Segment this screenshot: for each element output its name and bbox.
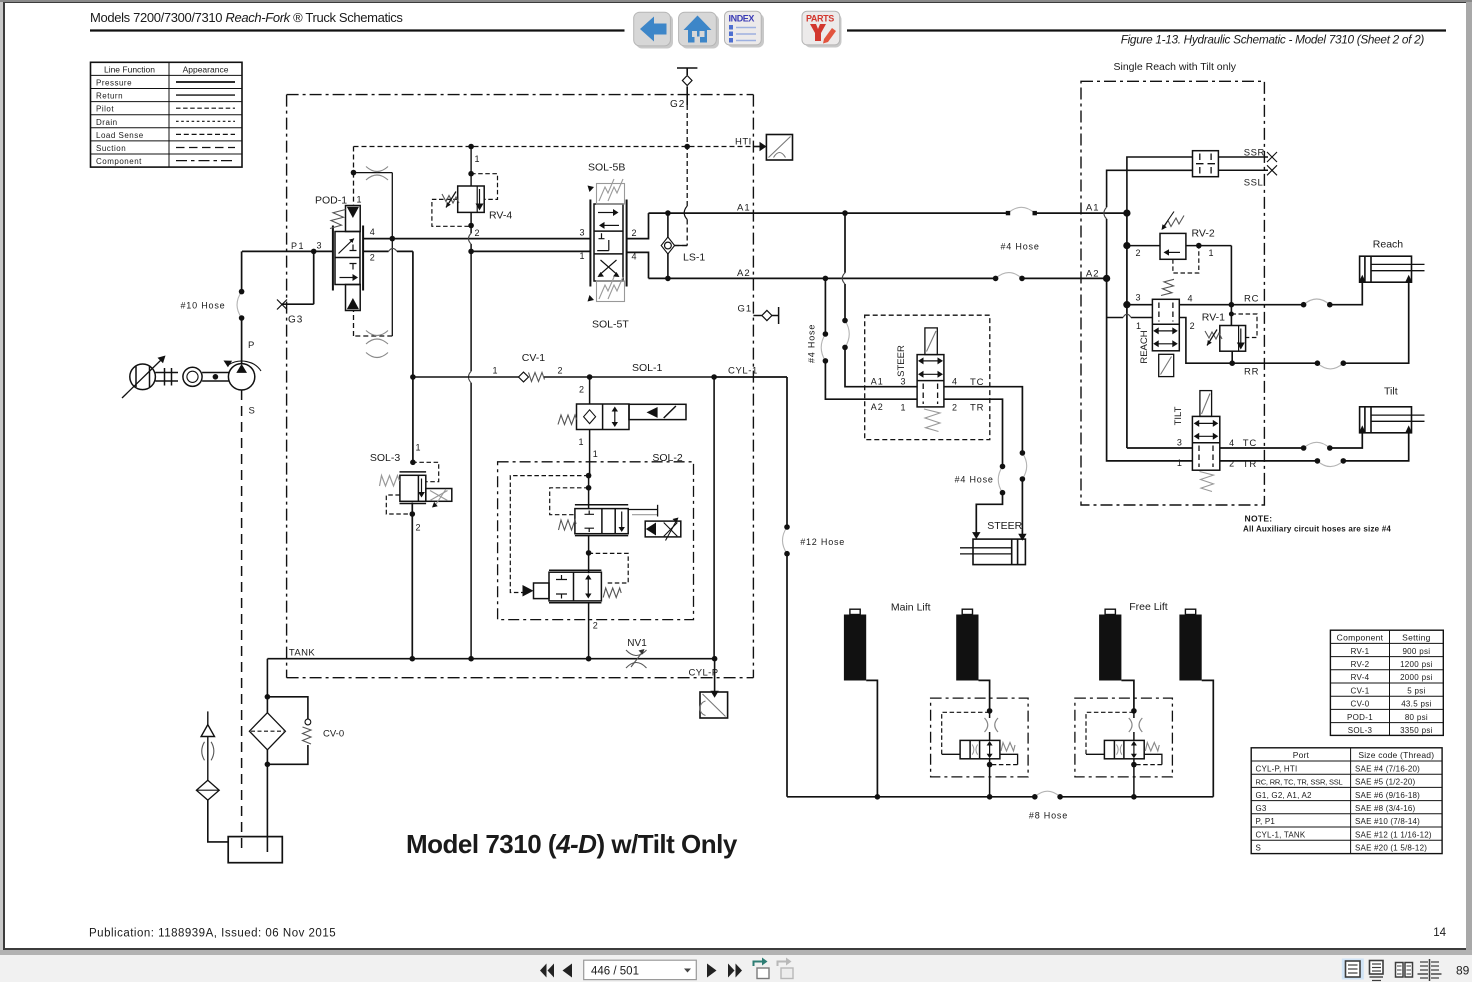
- svg-text:PARTS: PARTS: [806, 14, 834, 24]
- wire POD-1 port4 to SOL-5B port3: [363, 227, 590, 238]
- return filter and CV-0: [249, 659, 344, 837]
- svg-text:RR: RR: [1244, 367, 1259, 378]
- reach port stubs: [1107, 293, 1233, 364]
- svg-text:G3: G3: [288, 315, 303, 326]
- RV-4 relief valve: [432, 147, 512, 239]
- wire SOL-3 feed vertical: [410, 251, 416, 465]
- svg-text:TILT: TILT: [1173, 406, 1184, 425]
- header rule left: [90, 29, 625, 31]
- tilt port stubs: [1107, 278, 1257, 470]
- SOL-2 junction dots: [586, 473, 592, 556]
- svg-text:Component: Component: [96, 157, 142, 166]
- svg-text:2000 psi: 2000 psi: [1400, 673, 1433, 682]
- reach cylinder: [1359, 239, 1425, 283]
- svg-text:1200 psi: 1200 psi: [1400, 660, 1433, 669]
- wire HTI pilot dashed: [354, 146, 754, 148]
- NV1 needle valve: [626, 638, 647, 668]
- svg-text:CV-1: CV-1: [1351, 686, 1370, 695]
- svg-text:2: 2: [416, 523, 421, 533]
- svg-text:SAE #12 (1 1/16-12): SAE #12 (1 1/16-12): [1355, 830, 1432, 839]
- svg-text:Return: Return: [96, 92, 123, 101]
- wire A1 to steer: [842, 213, 917, 387]
- svg-text:TR: TR: [970, 403, 984, 414]
- svg-text:1: 1: [1136, 321, 1141, 331]
- port size table: [1251, 748, 1442, 854]
- svg-text:#10 Hose: #10 Hose: [181, 301, 226, 311]
- svg-text:A2: A2: [871, 402, 884, 412]
- wire P riser with #10 hose: [181, 251, 245, 364]
- svg-text:SAE #10 (7/8-14): SAE #10 (7/8-14): [1355, 817, 1420, 826]
- svg-text:G3: G3: [1256, 804, 1267, 813]
- SOL-2 lower valve: [523, 570, 622, 658]
- svg-text:SOL-5B: SOL-5B: [588, 162, 625, 174]
- figure caption: [1121, 33, 1425, 47]
- port G2: [670, 68, 697, 110]
- svg-text:3: 3: [580, 228, 585, 238]
- svg-text:1: 1: [580, 251, 585, 261]
- view icon single page (active): [1342, 959, 1364, 980]
- nav button parts: [802, 11, 842, 47]
- svg-text:STEER: STEER: [987, 520, 1022, 532]
- svg-text:3350 psi: 3350 psi: [1400, 726, 1433, 735]
- svg-text:SAE #4 (7/16-20): SAE #4 (7/16-20): [1355, 764, 1420, 773]
- svg-text:Figure 1-13. Hydraulic Schema: Figure 1-13. Hydraulic Schematic - Model…: [1121, 33, 1425, 47]
- SOL-1 valve: [558, 362, 686, 476]
- svg-text:RV-1: RV-1: [1351, 647, 1370, 656]
- legend table: [91, 62, 243, 167]
- svg-text:1: 1: [1177, 458, 1182, 468]
- svg-text:1: 1: [475, 154, 480, 164]
- svg-text:Setting: Setting: [1402, 633, 1431, 643]
- svg-text:RV-4: RV-4: [1351, 673, 1370, 682]
- junction dot RV-4 pilot: [468, 144, 474, 150]
- toolbar window icon 2 (disabled): [778, 958, 794, 979]
- wire A2 to steer: [821, 278, 917, 399]
- LS-1 shuttle: [661, 210, 705, 281]
- svg-text:S: S: [1256, 844, 1262, 853]
- wire suction dashed: [241, 390, 243, 849]
- HTI indicator: [735, 135, 793, 161]
- svg-text:1: 1: [357, 195, 362, 205]
- svg-text:CYL-1: CYL-1: [728, 366, 758, 377]
- tilt cylinder: [1359, 386, 1425, 433]
- svg-text:Size code (Thread): Size code (Thread): [1358, 750, 1434, 760]
- svg-text:A1: A1: [1086, 203, 1100, 214]
- svg-text:1: 1: [593, 449, 598, 459]
- svg-text:SOL-1: SOL-1: [632, 362, 663, 374]
- svg-text:Model 7310 (4-D) w/Tilt Only: Model 7310 (4-D) w/Tilt Only: [406, 829, 738, 859]
- svg-text:RC: RC: [1244, 294, 1259, 305]
- steer port labels: [871, 377, 985, 414]
- header title: [90, 10, 403, 25]
- wire TR: [1220, 433, 1409, 467]
- junction dot G2/HTI: [684, 144, 690, 150]
- POD-1 pilot loop: [351, 147, 397, 358]
- svg-text:RV-2: RV-2: [1351, 660, 1370, 669]
- wire A1: [649, 203, 1127, 252]
- port G3: [277, 251, 314, 325]
- pump assembly: [122, 340, 261, 417]
- lift cylinder 4: [1179, 609, 1213, 797]
- wire lift supply #8 hose: [787, 791, 1213, 820]
- svg-text:G2: G2: [670, 99, 685, 110]
- svg-text:G1: G1: [738, 304, 753, 315]
- lift cylinder 1: [844, 609, 880, 799]
- svg-text:Single Reach with Tilt only: Single Reach with Tilt only: [1114, 61, 1237, 73]
- svg-text:RV-2: RV-2: [1192, 228, 1215, 240]
- svg-text:P1: P1: [291, 241, 305, 251]
- wire SOL-5B ports to A1/A2: [627, 213, 649, 278]
- svg-text:1: 1: [416, 443, 421, 453]
- svg-text:#4 Hose: #4 Hose: [955, 475, 994, 485]
- lift cylinder 3: [1099, 609, 1134, 711]
- svg-text:Models 7200/7300/7310 Reach-Fo: Models 7200/7300/7310 Reach-Fork ® Truck…: [90, 10, 403, 25]
- svg-text:4: 4: [1229, 438, 1234, 448]
- svg-text:POD-1: POD-1: [1347, 713, 1373, 722]
- steer valve: [917, 328, 944, 432]
- svg-text:Drain: Drain: [96, 118, 118, 127]
- svg-text:SAE #20 (1 5/8-12): SAE #20 (1 5/8-12): [1355, 844, 1427, 853]
- POD-1 valve: [315, 195, 363, 311]
- svg-text:1: 1: [901, 403, 906, 413]
- wire RR: [1232, 282, 1409, 377]
- toolbar first-page icon: [540, 964, 554, 978]
- wire steer TR: [944, 399, 1005, 539]
- CV-1 check valve: [413, 352, 758, 382]
- svg-text:Free Lift: Free Lift: [1129, 601, 1168, 613]
- svg-text:2: 2: [1229, 459, 1234, 469]
- svg-text:STEER: STEER: [896, 345, 907, 377]
- svg-text:Publication: 1188939A, Issued:: Publication: 1188939A, Issued: 06 Nov 20…: [89, 928, 336, 940]
- svg-text:Main Lift: Main Lift: [891, 602, 931, 614]
- nav button index: [725, 11, 765, 47]
- wire reach feed vertical: [1086, 203, 1130, 449]
- toolbar next icon: [707, 964, 717, 978]
- svg-text:2: 2: [579, 385, 584, 395]
- svg-text:2: 2: [632, 228, 637, 238]
- svg-text:Port: Port: [1293, 750, 1310, 760]
- svg-text:#8 Hose: #8 Hose: [1029, 811, 1068, 821]
- reservoir tank: [228, 837, 282, 863]
- RV-2 relief valve: [1127, 212, 1232, 305]
- port CYL-P: [689, 377, 728, 718]
- velocity fuse 2: [1086, 708, 1162, 799]
- toolbar page textbox: [584, 960, 697, 979]
- view icon continuous: [1370, 961, 1384, 981]
- svg-text:SAE #5 (1/2-20): SAE #5 (1/2-20): [1355, 778, 1415, 787]
- svg-text:#12 Hose: #12 Hose: [800, 537, 845, 547]
- wire G2 pilot dashed vertical: [675, 105, 688, 246]
- svg-text:CYL-1, TANK: CYL-1, TANK: [1256, 830, 1306, 839]
- wire POD-1 port2 to SOL-5B port1: [363, 251, 590, 262]
- svg-text:3: 3: [1177, 438, 1182, 448]
- toolbar last-page icon: [728, 964, 742, 978]
- svg-text:SSL: SSL: [1244, 178, 1263, 189]
- svg-text:CYL-P, HTI: CYL-P, HTI: [1256, 764, 1298, 773]
- view icon two pages: [1396, 963, 1413, 978]
- REACH valve: [1152, 279, 1179, 376]
- svg-text:3: 3: [317, 241, 322, 251]
- svg-text:G1, G2, A1, A2: G1, G2, A1, A2: [1256, 791, 1313, 800]
- SOL-2 upper valve: [559, 476, 681, 574]
- svg-text:900 psi: 900 psi: [1402, 647, 1430, 656]
- velocity fuse 1 box: [931, 698, 1029, 777]
- svg-text:Pilot: Pilot: [96, 105, 114, 114]
- svg-text:RV-4: RV-4: [489, 210, 512, 222]
- breather: [196, 711, 228, 842]
- nav button back: [634, 12, 673, 48]
- svg-text:4: 4: [1188, 294, 1193, 304]
- svg-text:Reach: Reach: [1373, 239, 1404, 251]
- svg-text:S: S: [249, 406, 255, 417]
- wire RC: [1179, 282, 1362, 307]
- svg-text:SOL-3: SOL-3: [1348, 726, 1373, 735]
- wire TC: [1220, 433, 1363, 451]
- svg-text:A2: A2: [1086, 269, 1100, 280]
- svg-text:CV-0: CV-0: [1351, 700, 1370, 709]
- svg-text:INDEX: INDEX: [729, 14, 755, 24]
- note text: [1243, 514, 1391, 534]
- svg-text:LS-1: LS-1: [683, 252, 705, 264]
- svg-text:2: 2: [475, 228, 480, 238]
- SSR SSL coupler: [1104, 148, 1277, 279]
- nav button home: [679, 12, 719, 48]
- SOL-2 boundary box: [498, 462, 694, 620]
- svg-text:All Auxiliary circuit hoses ar: All Auxiliary circuit hoses are size #4: [1243, 525, 1391, 534]
- svg-text:3: 3: [1136, 293, 1141, 303]
- wire into tank: [266, 837, 268, 852]
- svg-text:A2: A2: [737, 268, 751, 279]
- velocity fuse 1: [942, 708, 1018, 799]
- svg-text:43.5 psi: 43.5 psi: [1401, 700, 1431, 709]
- svg-text:P, P1: P, P1: [1256, 817, 1276, 826]
- svg-text:A1: A1: [737, 203, 751, 214]
- svg-text:4: 4: [370, 227, 375, 237]
- svg-text:446 / 501: 446 / 501: [591, 966, 639, 978]
- svg-text:P: P: [248, 340, 254, 351]
- svg-text:5 psi: 5 psi: [1407, 686, 1425, 695]
- svg-text:2: 2: [593, 621, 598, 631]
- svg-text:#4 Hose: #4 Hose: [1001, 242, 1040, 252]
- svg-text:TANK: TANK: [289, 648, 315, 659]
- svg-text:RC, RR, TC, TR, SSR, SSL: RC, RR, TC, TR, SSR, SSL: [1256, 778, 1343, 787]
- SOL-5B / SOL-5T valve: [580, 162, 637, 331]
- svg-text:SOL-2: SOL-2: [652, 452, 683, 464]
- header rule right: [847, 29, 1446, 31]
- view icon two-page continuous: [1418, 959, 1442, 981]
- svg-text:POD-1: POD-1: [315, 195, 347, 207]
- svg-text:2: 2: [370, 253, 375, 263]
- svg-text:SAE #8 (3/4-16): SAE #8 (3/4-16): [1355, 804, 1415, 813]
- SOL-3 valve: [370, 443, 452, 659]
- RV-1 relief valve: [1202, 302, 1257, 366]
- svg-text:14: 14: [1433, 927, 1446, 939]
- manifold component boundary box: [287, 95, 754, 678]
- component setting table: [1330, 630, 1443, 735]
- port G1: [738, 304, 779, 325]
- SOL-2 pilot dashed loop: [510, 476, 628, 593]
- TILT valve: [1192, 391, 1219, 492]
- toolbar prev icon: [563, 964, 573, 978]
- svg-text:1: 1: [493, 366, 498, 376]
- svg-text:SOL-3: SOL-3: [370, 452, 401, 464]
- svg-text:Component: Component: [1337, 633, 1384, 643]
- svg-text:1: 1: [579, 437, 584, 447]
- svg-text:CV-1: CV-1: [522, 352, 546, 364]
- svg-text:Load Sense: Load Sense: [96, 131, 144, 140]
- svg-text:RV-1: RV-1: [1202, 312, 1225, 324]
- svg-text:NV1: NV1: [627, 638, 647, 649]
- wire A2: [649, 268, 1107, 281]
- svg-text:SAE #6 (9/16-18): SAE #6 (9/16-18): [1355, 791, 1420, 800]
- svg-text:#4 Hose: #4 Hose: [807, 324, 817, 363]
- svg-text:Pressure: Pressure: [96, 79, 132, 88]
- velocity fuse 2 box: [1075, 698, 1173, 777]
- svg-text:CV-0: CV-0: [323, 729, 344, 740]
- svg-text:Tilt: Tilt: [1384, 386, 1398, 398]
- wire steer TC: [944, 387, 1027, 541]
- svg-text:80 psi: 80 psi: [1405, 713, 1428, 722]
- wire RV-4 drain to tank: [468, 212, 474, 658]
- svg-text:3: 3: [901, 377, 906, 387]
- svg-text:2: 2: [952, 403, 957, 413]
- steer valve block: [865, 315, 990, 439]
- svg-text:HTI: HTI: [735, 137, 752, 148]
- svg-text:SSR: SSR: [1244, 148, 1265, 159]
- svg-text:REACH: REACH: [1139, 330, 1150, 363]
- svg-text:SOL-5T: SOL-5T: [592, 319, 629, 331]
- svg-text:Line Function: Line Function: [104, 65, 155, 75]
- svg-text:2: 2: [1136, 248, 1141, 258]
- port P1: [242, 241, 333, 255]
- svg-text:A1: A1: [871, 377, 884, 387]
- svg-text:NOTE:: NOTE:: [1245, 514, 1273, 524]
- svg-text:4: 4: [952, 377, 957, 387]
- svg-text:2: 2: [1190, 321, 1195, 331]
- svg-text:Appearance: Appearance: [183, 65, 229, 75]
- svg-text:2: 2: [558, 366, 563, 376]
- toolbar window icon 1: [754, 958, 770, 979]
- single reach box: [1081, 81, 1264, 505]
- steer cylinder: [960, 520, 1025, 565]
- TANK line: [267, 648, 717, 662]
- svg-text:1: 1: [1209, 248, 1214, 258]
- lift cylinder 2: [956, 609, 989, 711]
- svg-text:89: 89: [1456, 964, 1470, 978]
- wire CYL-1 to lift circuit: [714, 377, 845, 797]
- svg-text:Suction: Suction: [96, 144, 126, 153]
